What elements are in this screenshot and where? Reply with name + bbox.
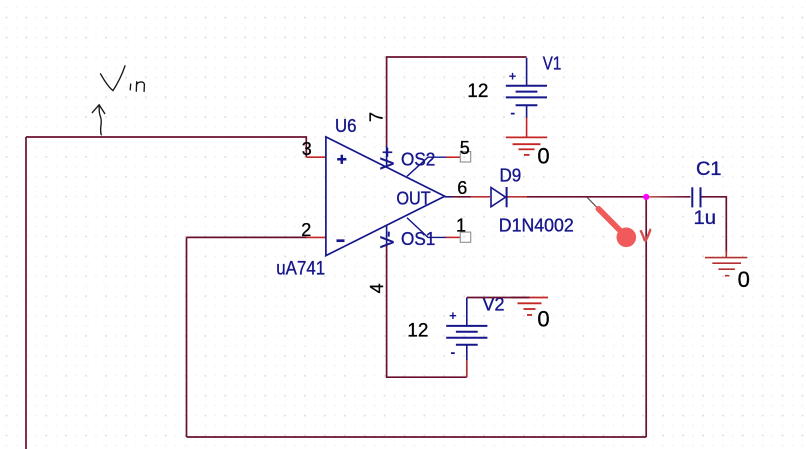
pin 5 stub (red)	[446, 156, 461, 158]
ground 0 under C1	[705, 258, 747, 276]
V1 battery symbol	[506, 86, 547, 105]
voltage probe tip line	[587, 197, 597, 207]
ground 0 beside V2	[512, 298, 549, 316]
wire feedback left vertical	[186, 237, 188, 437]
V2 minus pin (blue)	[466, 345, 468, 360]
op-amp + input mark	[337, 155, 346, 164]
svg-text:5: 5	[460, 138, 470, 158]
diode anode pin stub (red)	[471, 196, 491, 198]
wire feedback right vertical	[645, 197, 647, 437]
pin 4 stub (navy)	[386, 225, 388, 245]
pin 2 stub (red)	[306, 236, 326, 238]
wire diode to junction	[527, 196, 646, 198]
wire output to diode	[451, 196, 471, 198]
op-amp - input mark	[337, 239, 345, 242]
wire Vin input horizontal to pin 3	[26, 137, 306, 157]
svg-text:OUT: OUT	[396, 188, 430, 208]
svg-text:0: 0	[537, 306, 549, 331]
V2 battery symbol	[446, 326, 487, 345]
svg-text:1u: 1u	[694, 208, 717, 229]
svg-text:-: -	[450, 344, 455, 361]
svg-text:D1N4002: D1N4002	[499, 214, 574, 235]
V1 plus pin (blue)	[526, 58, 528, 86]
wire C1 right to ground	[701, 197, 726, 253]
svg-text:12: 12	[467, 81, 488, 102]
V1 ground stem (red)	[526, 118, 528, 138]
diode D9	[491, 187, 507, 207]
svg-text:0: 0	[738, 267, 750, 292]
pin 5 terminal box	[460, 152, 470, 162]
svg-text:V+: V+	[378, 147, 398, 170]
svg-text:12: 12	[407, 321, 428, 342]
C1 ground stem (red)	[725, 251, 727, 258]
svg-text:uA741: uA741	[276, 258, 325, 280]
wire feedback bottom	[187, 436, 647, 438]
V2 plus pin (blue)	[466, 298, 468, 326]
wire junction to C1	[646, 196, 691, 198]
svg-text:V-: V-	[378, 231, 398, 248]
ground 0 under V1	[506, 137, 547, 155]
svg-text:0: 0	[537, 144, 549, 169]
svg-text:-: -	[510, 105, 515, 122]
svg-text:D9: D9	[500, 166, 522, 186]
annotation arrow to input wire	[92, 105, 105, 135]
annotation Vin (handwritten)	[101, 66, 145, 92]
op-amp U6 triangle	[326, 137, 445, 256]
wire Vin input vertical (left rail)	[25, 137, 27, 449]
wire V2 plus to ground 0	[467, 297, 530, 299]
wire pin 7 vertical	[387, 57, 527, 147]
capacitor C1	[692, 187, 700, 207]
svg-text:7: 7	[367, 112, 387, 122]
wire up to V2 minus (red lower part)	[466, 360, 468, 378]
diode cathode pin stub (red)	[507, 196, 527, 198]
pin 1 terminal box	[460, 232, 470, 242]
svg-text:C1: C1	[696, 158, 722, 180]
svg-text:1: 1	[456, 216, 466, 236]
V1 minus pin (blue)	[526, 105, 528, 118]
pin 5 internal lead	[407, 157, 447, 176]
pin 7 stub (navy)	[386, 146, 388, 167]
svg-text:4: 4	[367, 283, 387, 293]
svg-text:3: 3	[302, 139, 312, 159]
voltage probe V marker	[640, 230, 651, 241]
svg-text:U6: U6	[335, 116, 357, 136]
wire pin 2 horizontal	[187, 236, 307, 238]
svg-text:+: +	[449, 308, 457, 323]
svg-text:6: 6	[457, 178, 467, 198]
voltage probe body	[599, 209, 624, 234]
svg-text:2: 2	[301, 220, 311, 240]
svg-text:+: +	[509, 69, 517, 84]
pin 3 stub (red)	[307, 156, 327, 158]
voltage probe blob	[617, 228, 637, 248]
pin 1 internal lead	[407, 218, 447, 238]
junction node (magenta)	[643, 194, 649, 200]
pin 6 OUT stub (navy)	[445, 196, 452, 198]
svg-text:OS1: OS1	[401, 229, 435, 249]
svg-text:V1: V1	[543, 54, 562, 74]
pin 1 stub (red)	[446, 236, 461, 238]
wire pin 4 vertical down	[387, 244, 467, 377]
